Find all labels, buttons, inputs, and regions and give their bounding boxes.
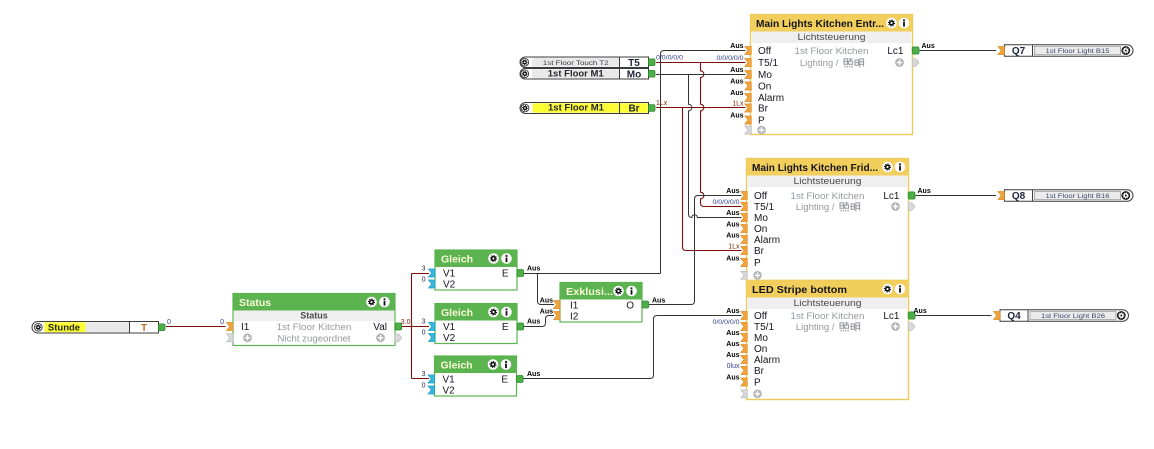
svg-text:Aus: Aus (652, 298, 665, 305)
function block Gleich 1 (435, 250, 517, 290)
svg-text:E: E (502, 269, 509, 280)
svg-text:Lc1: Lc1 (887, 46, 904, 57)
connector Status.I1 input (orange) (227, 323, 234, 331)
wire Stunde.T to Status.I1 (red) (166, 326, 226, 328)
svg-text:1st Floor Light B15: 1st Floor Light B15 (1046, 48, 1110, 55)
connector Main Lights Kitchen Entr....Off input (orange) (745, 47, 752, 55)
svg-text:V2: V2 (443, 386, 456, 397)
connector Main Lights Kitchen Frid....Br input (orange) (741, 247, 748, 255)
svg-text:On: On (758, 82, 771, 93)
connector Exklusiv.O output (green) (642, 301, 649, 308)
input block 1st Floor Touch T2 / T5 (520, 57, 649, 68)
connector Gleich2.V2 input (cyan) (429, 334, 436, 342)
svg-text:I1: I1 (241, 322, 250, 333)
svg-text:E: E (502, 322, 509, 333)
wire Gleich1.E to LC1.Off and Exklusiv.I1 (black) (523, 51, 746, 274)
connector Main Lights Kitchen Frid... extra input (gray) (741, 271, 748, 279)
function block Status (233, 294, 395, 346)
wire Gleich3.E to LC3.Off (black) (523, 316, 742, 379)
svg-text:Br: Br (754, 366, 765, 377)
svg-text:3: 3 (422, 319, 426, 326)
svg-text:Aus: Aus (527, 319, 540, 326)
svg-text:Alarm: Alarm (754, 235, 780, 246)
svg-text:Status: Status (300, 311, 328, 321)
connector LED Stripe bottom.P input (orange) (741, 378, 748, 386)
connector Main Lights Kitchen Entr....Br input (orange) (745, 104, 752, 112)
svg-text:Alarm: Alarm (758, 93, 784, 104)
wire Exklusiv.O to LC2.Off (black) (649, 196, 742, 305)
svg-text:Nicht zugeordnet: Nicht zugeordnet (278, 333, 351, 344)
wire T5 to LC1.T5/1 and LC2.T5/1 (red) (656, 62, 746, 64)
connector Main Lights Kitchen Entr... extra output (gray) (912, 59, 919, 67)
svg-text:1st Floor Kitchen: 1st Floor Kitchen (277, 322, 352, 333)
svg-text:Lichtsteuerung: Lichtsteuerung (794, 298, 862, 309)
svg-text:Aus: Aus (730, 67, 743, 74)
wire LC2.Lc1 to Q8 (black) (916, 195, 997, 197)
svg-text:Status: Status (239, 297, 271, 309)
svg-text:Aus: Aus (726, 375, 739, 382)
svg-text:T: T (141, 323, 147, 334)
svg-text:Aus: Aus (726, 308, 739, 315)
connector Main Lights Kitchen Frid....Off input (orange) (741, 192, 748, 200)
connector LED Stripe bottom extra output (gray) (908, 323, 915, 331)
function block Gleich 3 (435, 356, 517, 396)
connector Main Lights Kitchen Entr....P input (orange) (745, 116, 752, 124)
svg-text:Mo: Mo (754, 213, 768, 224)
svg-text:1Lx: 1Lx (656, 100, 668, 107)
svg-text:Aus: Aus (726, 330, 739, 337)
connector Q4 input (orange) (994, 312, 1001, 320)
svg-text:T5/1: T5/1 (754, 322, 774, 333)
connector LED Stripe bottom.Alarm input (orange) (741, 356, 748, 364)
svg-text:Main Lights Kitchen Frid...: Main Lights Kitchen Frid... (752, 162, 878, 174)
svg-text:0/0/0/0/0: 0/0/0/0/0 (717, 55, 744, 62)
svg-text:P: P (758, 116, 765, 127)
connector Gleich2.E output (green) (517, 323, 524, 330)
svg-text:T5: T5 (628, 58, 640, 69)
svg-text:Gleich: Gleich (441, 307, 473, 319)
function block Gleich 2 (435, 304, 517, 344)
svg-text:Q4: Q4 (1007, 311, 1021, 322)
svg-text:Alarm: Alarm (754, 355, 780, 366)
svg-text:Aus: Aus (540, 298, 553, 305)
svg-text:1st Floor Kitchen: 1st Floor Kitchen (795, 46, 869, 57)
svg-text:Aus: Aus (918, 188, 931, 195)
svg-text:Main Lights Kitchen Entr...: Main Lights Kitchen Entr... (756, 18, 884, 30)
svg-text:Aus: Aus (726, 233, 739, 240)
connector Gleich1.V2 input (cyan) (429, 280, 436, 288)
connector Gleich3.E output (green) (517, 376, 524, 383)
connector Main Lights Kitchen Frid....Mo input (orange) (741, 214, 748, 222)
light controller block Main Lights Kitchen Frid... (747, 159, 909, 281)
connector Main Lights Kitchen Frid....T5/1 input (orange) (741, 203, 748, 211)
svg-text:Aus: Aus (730, 79, 743, 86)
svg-text:Br: Br (758, 104, 769, 115)
svg-text:Aus: Aus (726, 188, 739, 195)
svg-text:I2: I2 (570, 312, 579, 323)
svg-text:Val: Val (373, 322, 387, 333)
svg-text:Aus: Aus (527, 371, 540, 378)
svg-text:Aus: Aus (726, 352, 739, 359)
svg-text:Gleich: Gleich (441, 254, 473, 266)
svg-text:Mo: Mo (754, 333, 768, 344)
connector Main Lights Kitchen Entr....Alarm input (orange) (745, 94, 752, 102)
svg-text:1st Floor Kitchen: 1st Floor Kitchen (791, 191, 865, 202)
svg-text:1st Floor M1: 1st Floor M1 (548, 68, 605, 79)
wire Br to LC1.Br and LC2.Br (red) (656, 107, 746, 109)
svg-text:1Lx: 1Lx (732, 101, 744, 108)
svg-text:On: On (754, 224, 767, 235)
output block Q8 1st Floor Light B16 (1005, 190, 1133, 201)
svg-text:1st Floor Touch T2: 1st Floor Touch T2 (543, 60, 609, 67)
svg-text:0: 0 (422, 277, 426, 284)
svg-text:Q8: Q8 (1012, 191, 1026, 202)
svg-text:V2: V2 (443, 280, 456, 291)
connector Q8 input (orange) (998, 192, 1005, 200)
svg-text:Aus: Aus (540, 309, 553, 316)
connector Main Lights Kitchen Entr....On input (orange) (745, 82, 752, 90)
connector Status extra output (gray) (395, 334, 402, 342)
wire LC1.Lc1 to Q7 (black) (920, 50, 997, 52)
svg-text:3: 3 (422, 371, 426, 378)
output block Q4 1st Floor Light B26 (1000, 310, 1129, 321)
connector LED Stripe bottom.Mo input (orange) (741, 334, 748, 342)
svg-text:0/0/0/0/0: 0/0/0/0/0 (656, 55, 683, 62)
input block Stunde / T (highlighted yellow) (32, 322, 159, 334)
wire LC3.Lc1 to Q4 (black) (916, 315, 992, 317)
svg-text:1st Floor Light B16: 1st Floor Light B16 (1046, 193, 1110, 200)
svg-text:0/0/0/0/0: 0/0/0/0/0 (713, 319, 740, 326)
svg-text:1st Floor Kitchen: 1st Floor Kitchen (791, 311, 865, 322)
connector Exklusiv.I1 input (orange) (554, 301, 561, 309)
connector Gleich1.V1 input (cyan) (429, 269, 436, 277)
svg-text:0: 0 (167, 319, 171, 326)
svg-text:Exklusi...: Exklusi... (566, 286, 613, 298)
svg-text:Aus: Aus (726, 222, 739, 229)
svg-text:Aus: Aus (730, 43, 743, 50)
svg-text:1Lx: 1Lx (728, 244, 740, 251)
input block 1st Floor M1 / Mo (520, 69, 649, 80)
svg-text:Lighting /: Lighting / (796, 322, 837, 333)
connector LED Stripe bottom.Lc1 output (green) (908, 312, 915, 319)
svg-text:Lc1: Lc1 (883, 191, 900, 202)
svg-text:T5/1: T5/1 (758, 58, 778, 69)
svg-text:Aus: Aus (922, 43, 935, 50)
connector Exklusiv.I2 input (orange) (554, 312, 561, 320)
connector Main Lights Kitchen Frid... extra output (gray) (908, 203, 915, 211)
connector Main Lights Kitchen Entr... extra input (gray) (745, 126, 752, 134)
svg-text:V1: V1 (443, 322, 456, 333)
svg-text:P: P (754, 258, 761, 269)
wire Status.Val to Gleich V1 bus (red) (402, 274, 429, 379)
svg-text:Aus: Aus (726, 256, 739, 263)
svg-text:I1: I1 (570, 301, 579, 312)
svg-text:1st Floor M1: 1st Floor M1 (548, 103, 605, 114)
svg-text:Lighting /: Lighting / (800, 58, 841, 69)
connector Main Lights Kitchen Frid....Alarm input (orange) (741, 236, 748, 244)
input block 1st Floor M1 / Br (highlighted yellow) (520, 103, 649, 114)
svg-text:T5/1: T5/1 (754, 202, 774, 213)
svg-text:Aus: Aus (914, 308, 927, 315)
connector Gleich2.V1 input (cyan) (429, 323, 436, 331)
svg-text:0: 0 (422, 383, 426, 390)
connector LED Stripe bottom.On input (orange) (741, 345, 748, 353)
svg-text:3.0: 3.0 (401, 319, 411, 326)
svg-text:Stunde: Stunde (48, 322, 80, 333)
connector Gleich1.E output (green) (517, 270, 524, 277)
connector Main Lights Kitchen Frid....P input (orange) (741, 259, 748, 267)
svg-text:Off: Off (758, 46, 771, 57)
svg-text:Mo: Mo (627, 69, 641, 80)
connector LED Stripe bottom.Off input (orange) (741, 312, 748, 320)
svg-text:Aus: Aus (730, 90, 743, 97)
wire Gleich2.E to Exklusiv.I2 (black) (523, 316, 554, 327)
svg-text:V1: V1 (443, 269, 456, 280)
svg-text:Gleich: Gleich (441, 360, 473, 372)
light controller block Main Lights Kitchen Entr... (751, 15, 913, 135)
svg-text:Lichtsteuerung: Lichtsteuerung (798, 32, 866, 43)
svg-text:0: 0 (220, 319, 224, 326)
connector Main Lights Kitchen Frid....Lc1 output (green) (908, 192, 915, 199)
svg-text:On: On (754, 344, 767, 355)
svg-text:Lc1: Lc1 (883, 311, 900, 322)
connector Main Lights Kitchen Entr....Lc1 output (green) (912, 47, 919, 54)
svg-text:E: E (501, 375, 508, 386)
svg-text:Aus: Aus (730, 113, 743, 120)
connector Q7 input (orange) (998, 47, 1005, 55)
function block Exklusiv-Oder (560, 283, 642, 323)
wire Mo to LC1.Mo and LC2.Mo (black) (656, 74, 746, 76)
svg-text:Mo: Mo (758, 70, 772, 81)
svg-text:LED Stripe bottom: LED Stripe bottom (752, 284, 847, 296)
connector LED Stripe bottom extra input (gray) (741, 390, 748, 398)
svg-text:Lichtsteuerung: Lichtsteuerung (794, 176, 862, 187)
svg-text:O: O (626, 301, 634, 312)
svg-text:Aus: Aus (527, 266, 540, 273)
svg-text:P: P (754, 378, 761, 389)
svg-text:Br: Br (628, 104, 639, 115)
connector LED Stripe bottom.T5/1 input (orange) (741, 323, 748, 331)
svg-text:0: 0 (422, 330, 426, 337)
connector Status extra input (gray) (227, 334, 234, 342)
light controller block LED Stripe bottom (747, 281, 909, 400)
svg-text:0lux: 0lux (727, 363, 740, 370)
connector Main Lights Kitchen Entr....T5/1 input (orange) (745, 59, 752, 67)
connector Gleich3.V1 input (cyan) (428, 375, 435, 383)
svg-text:3: 3 (422, 266, 426, 273)
svg-text:V1: V1 (443, 375, 456, 386)
svg-text:Aus: Aus (726, 341, 739, 348)
connector Gleich3.V2 input (cyan) (428, 386, 435, 394)
connector Main Lights Kitchen Frid....On input (orange) (741, 225, 748, 233)
svg-text:Br: Br (754, 246, 765, 257)
svg-text:Aus: Aus (726, 210, 739, 217)
svg-text:Q7: Q7 (1012, 46, 1026, 57)
svg-text:1st Floor Light B26: 1st Floor Light B26 (1041, 313, 1105, 320)
svg-text:Off: Off (754, 311, 767, 322)
svg-text:V2: V2 (443, 333, 456, 344)
output block Q7 1st Floor Light B15 (1005, 45, 1134, 56)
connector Status.Val output (green) (395, 323, 402, 330)
svg-text:Off: Off (754, 191, 767, 202)
connector LED Stripe bottom.Br input (orange) (741, 367, 748, 375)
svg-text:Lighting /: Lighting / (796, 202, 837, 213)
svg-text:0/0/0/0/0: 0/0/0/0/0 (713, 199, 740, 206)
connector Main Lights Kitchen Entr....Mo input (orange) (745, 71, 752, 79)
